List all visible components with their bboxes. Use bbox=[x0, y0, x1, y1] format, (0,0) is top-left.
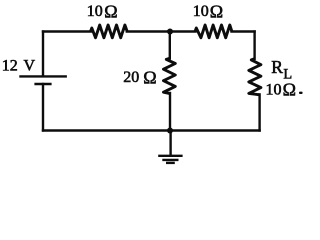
svg-text:10: 10 bbox=[87, 3, 103, 20]
svg-text:Ω: Ω bbox=[210, 1, 223, 21]
svg-text:10: 10 bbox=[193, 3, 209, 20]
svg-text:Ω: Ω bbox=[283, 79, 296, 99]
svg-text:V: V bbox=[24, 58, 36, 75]
svg-text:R: R bbox=[271, 57, 283, 77]
svg-text:Ω: Ω bbox=[143, 67, 156, 87]
svg-text:20: 20 bbox=[123, 69, 139, 86]
svg-text:Ω: Ω bbox=[104, 1, 117, 21]
svg-text:10: 10 bbox=[266, 82, 282, 99]
svg-text:12: 12 bbox=[2, 58, 18, 75]
